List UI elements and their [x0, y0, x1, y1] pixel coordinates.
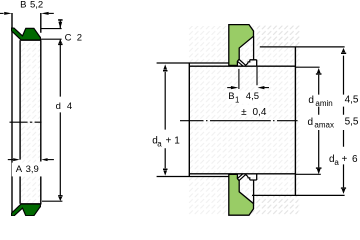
- counterface max-diameter ghost band top: [257, 26, 300, 47]
- seal section bottom (mirrored green profile): [12, 204, 41, 216]
- svg-text:6: 6: [352, 154, 358, 165]
- seal body top line: [21, 39, 42, 41]
- C top arrow with bar: [58, 19, 63, 21]
- svg-text:amax: amax: [314, 121, 334, 130]
- A top arrow with bar: [317, 68, 321, 73]
- V-ring seal mounted, bottom section (light green, mirrored): [229, 174, 254, 215]
- counterface d_amax boundary bottom: [252, 194, 345, 196]
- svg-text:5,5: 5,5: [345, 117, 359, 128]
- dimension line B (d_a+6): [343, 56, 345, 188]
- svg-text:+: +: [166, 136, 172, 147]
- dimension C / d shared line: [59, 20, 61, 196]
- dimension line A (d_amin): [318, 75, 320, 168]
- svg-text:3,9: 3,9: [26, 164, 39, 175]
- lip pressed detail bottom: [237, 174, 249, 181]
- svg-text:+: +: [342, 154, 348, 165]
- counterface d_amax boundary top: [260, 46, 345, 48]
- svg-text:4,5: 4,5: [246, 91, 259, 102]
- svg-text:1: 1: [235, 96, 239, 105]
- seal lip inner edge line (bore d): [11, 13, 13, 213]
- label B1 4,5: [227, 91, 262, 103]
- ring body section hatch: [21, 40, 41, 204]
- counterface front face top: [250, 36, 257, 66]
- svg-text:d: d: [308, 117, 314, 128]
- seal outer back edge line: [40, 13, 42, 205]
- dimension C extension lines: [41, 29, 62, 40]
- svg-text:5,2: 5,2: [30, 0, 43, 10]
- lip pressed detail top: [237, 59, 249, 66]
- C bottom arrow with bar: [58, 39, 62, 43]
- seal lip back line: [19, 40, 21, 204]
- svg-text:a: a: [334, 158, 339, 167]
- B bottom arrow with bar: [341, 187, 346, 188]
- d bottom arrow with bar: [58, 195, 63, 197]
- svg-text:A: A: [16, 164, 23, 175]
- B1 left arrow: [227, 87, 231, 89]
- svg-text:a: a: [157, 140, 162, 149]
- seal bore line da+1 bottom: [157, 176, 229, 178]
- centerline left figure: [10, 121, 42, 123]
- label A 3,9 (with white box): [12, 163, 44, 177]
- seal bore line da+1 top: [157, 62, 229, 64]
- svg-text:4,5: 4,5: [345, 95, 359, 106]
- svg-text:±: ±: [241, 107, 247, 118]
- svg-text:d: d: [56, 101, 61, 112]
- da+1 bottom arrow with bar: [163, 169, 168, 171]
- svg-text:1: 1: [174, 136, 180, 147]
- dimension B1 extension lines: [239, 67, 257, 89]
- B top arrow with bar: [342, 48, 346, 53]
- svg-text:amin: amin: [315, 99, 332, 108]
- da+1 top arrow with bar: [163, 64, 167, 69]
- shaft left end edge: [188, 63, 190, 177]
- counterface max-diameter ghost band bottom: [252, 195, 298, 215]
- svg-text:B: B: [228, 91, 234, 102]
- svg-text:0,4: 0,4: [253, 107, 267, 118]
- counterface right edge: [294, 47, 296, 196]
- shaft top surface line: [189, 65, 296, 67]
- dimension B: line and arrows: [0, 12, 4, 14]
- A bottom arrow with bar: [316, 167, 322, 168]
- background hatch of counterpart region: [188, 26, 300, 215]
- dimension A arrows: [8, 159, 13, 161]
- shaft bottom surface line: [189, 173, 296, 175]
- dimension da+1 line: [164, 72, 166, 168]
- svg-text:B: B: [20, 0, 26, 10]
- B1 right arrow: [258, 86, 265, 89]
- svg-text:2: 2: [77, 32, 82, 43]
- svg-text:4: 4: [67, 101, 72, 112]
- seal body bottom line: [21, 203, 42, 205]
- svg-text:C: C: [65, 32, 72, 43]
- centerline right figure: [180, 120, 298, 122]
- d bottom extension line: [42, 200, 62, 202]
- V-ring seal mounted, top section (light green): [229, 25, 254, 66]
- seal section top (green profile with lip): [12, 28, 41, 40]
- svg-text:d: d: [308, 95, 314, 106]
- label ± 0,4: [239, 105, 269, 117]
- counterface front face bottom: [250, 174, 257, 204]
